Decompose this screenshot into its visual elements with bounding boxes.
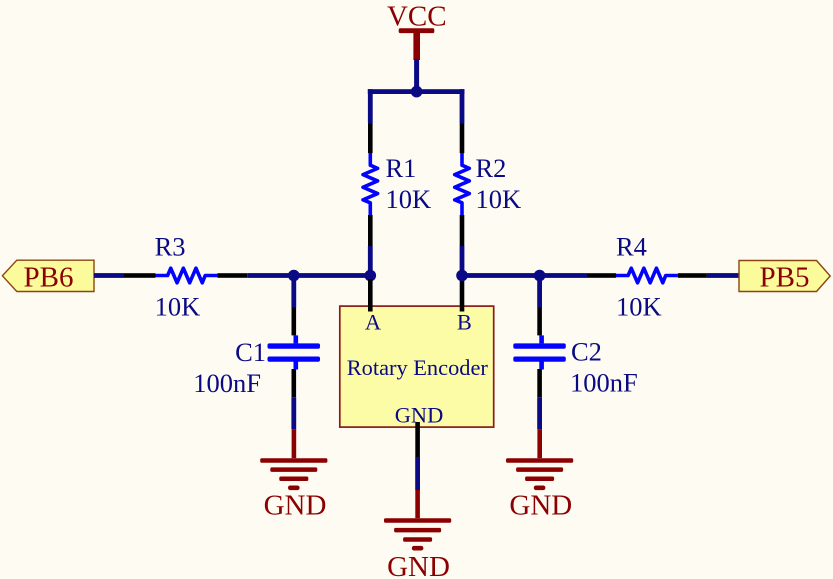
wire C1 lower (navy)	[291, 397, 296, 429]
svg-text:GND: GND	[264, 489, 327, 521]
node C2 junction	[534, 270, 546, 282]
pin R1.2	[368, 215, 373, 246]
wire top horizontal	[368, 89, 465, 94]
pin R3.1	[124, 273, 156, 278]
pin R4.2	[678, 273, 707, 278]
component U1 Rotary Encoder box	[340, 306, 494, 427]
power symbol GND (encoder)	[384, 490, 451, 579]
svg-text:10K: 10K	[476, 184, 522, 214]
node A junction	[365, 270, 377, 282]
pin R4.1	[587, 273, 616, 278]
port PB6	[2, 260, 94, 293]
node B junction	[456, 270, 468, 282]
svg-text:R3: R3	[155, 232, 186, 262]
svg-text:R4: R4	[616, 232, 647, 262]
svg-text:10K: 10K	[386, 184, 432, 214]
pin R2.2	[460, 215, 465, 246]
wire R3 to node A	[247, 273, 373, 278]
svg-text:B: B	[457, 310, 472, 335]
resistor R1	[363, 153, 378, 215]
wire R2 lower (navy)	[460, 246, 465, 276]
node VCC junction	[411, 86, 423, 98]
svg-text:100nF: 100nF	[193, 368, 261, 398]
power symbol GND (C1)	[260, 429, 327, 521]
power symbol VCC	[387, 0, 447, 60]
wire C2 upper (navy)	[537, 276, 542, 308]
resistor R4	[616, 268, 678, 283]
wire encoder GND lower (navy)	[415, 457, 420, 490]
svg-text:GND: GND	[395, 403, 444, 428]
pin A (black stub into box)	[368, 279, 373, 312]
svg-text:A: A	[365, 310, 381, 335]
pin R3.2	[217, 273, 247, 278]
pin C1.1	[292, 308, 297, 336]
capacitor C2	[513, 335, 566, 369]
pin R2.1	[460, 123, 465, 153]
port PB5	[739, 261, 830, 294]
resistor R3	[155, 268, 217, 283]
pin C2.1	[537, 308, 542, 336]
wire PB6 to R3	[94, 273, 124, 278]
svg-text:VCC: VCC	[387, 0, 447, 32]
pin B (black stub into box)	[460, 279, 465, 312]
svg-text:100nF: 100nF	[570, 368, 638, 398]
pin C1.2	[292, 369, 297, 397]
pin C2.2	[537, 369, 542, 397]
svg-text:10K: 10K	[616, 292, 662, 322]
svg-text:C1: C1	[235, 337, 266, 367]
wire R1 upper (navy)	[368, 89, 373, 123]
svg-text:PB6: PB6	[24, 262, 74, 294]
power symbol GND (C2)	[506, 429, 573, 521]
pin R1.1	[368, 123, 373, 153]
node C1 junction	[288, 270, 300, 282]
wire node B to node C2	[462, 273, 587, 278]
svg-text:PB5: PB5	[760, 262, 810, 294]
wire R2 upper (navy)	[460, 89, 465, 123]
wire C1 upper (navy)	[291, 276, 296, 308]
resistor R2	[455, 153, 470, 215]
svg-text:GND: GND	[509, 489, 572, 521]
svg-text:Rotary Encoder: Rotary Encoder	[347, 355, 489, 380]
capacitor C1	[268, 335, 321, 369]
svg-text:C2: C2	[571, 337, 602, 367]
wire VCC stem	[414, 59, 419, 94]
wire C2 lower (navy)	[537, 397, 542, 429]
svg-text:GND: GND	[387, 551, 450, 579]
pin GND (black stub out of box bottom)	[415, 422, 420, 457]
svg-text:R2: R2	[476, 153, 507, 183]
wire R1 lower (navy)	[368, 246, 373, 276]
svg-text:10K: 10K	[155, 292, 201, 322]
svg-text:R1: R1	[386, 153, 417, 183]
wire R4 to PB5	[707, 273, 739, 278]
